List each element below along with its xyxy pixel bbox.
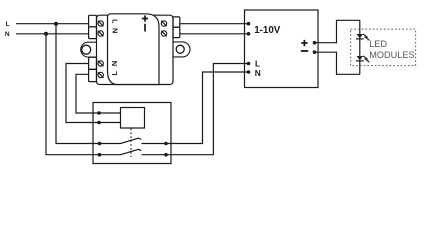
U2 terminal dot dim+: [247, 22, 251, 26]
screw terminal 2: [98, 31, 104, 37]
wire minus to LED chain: [315, 52, 360, 74]
driver U1 outline: [97, 15, 174, 84]
switch pole 2: [98, 149, 168, 156]
svg-text:N: N: [5, 31, 10, 38]
wire L horizontal: [16, 23, 89, 25]
screw terminal 5: [161, 21, 167, 27]
U2 terminal dot dim-: [247, 32, 251, 36]
junction dot L: [54, 22, 58, 26]
svg-text:MODULES: MODULES: [369, 50, 414, 60]
svg-text:1-10V: 1-10V: [254, 25, 281, 36]
U2 plus label: [301, 40, 307, 46]
mounting ear left hole: [82, 45, 91, 54]
wire LED chain vertical: [359, 20, 361, 74]
wire U1 plus to 1-10V: [180, 23, 249, 25]
wire U1 N2 to potentiometer: [66, 64, 121, 123]
U2 terminal dot L: [247, 62, 251, 66]
LED modules dashed box: [351, 29, 416, 65]
terminal clamp U1 left L: [89, 15, 97, 26]
svg-text:N: N: [110, 61, 119, 66]
wire N horizontal: [16, 33, 89, 35]
U2 minus label: [301, 50, 308, 52]
svg-text:LED: LED: [369, 39, 387, 49]
wire N drop to switch: [46, 34, 100, 155]
wire plus to LED chain: [315, 20, 360, 42]
pot terminal dot lower: [97, 121, 101, 125]
screw terminal 6: [161, 31, 167, 37]
svg-text:L: L: [110, 70, 119, 75]
wire U1 L2 to potentiometer: [76, 74, 121, 113]
mounting ear right hole: [176, 45, 184, 53]
svg-text:N: N: [255, 68, 261, 78]
terminal clamp U1 left N2: [89, 57, 97, 69]
screw terminal 3: [98, 61, 104, 67]
screw terminal 4: [98, 72, 104, 78]
svg-text:N: N: [110, 28, 119, 33]
U2 terminal dot N: [247, 70, 251, 74]
svg-text:L: L: [255, 58, 260, 68]
U1 minus label rotated: [144, 24, 146, 32]
terminal clamp U1 left L2: [89, 69, 97, 81]
U2 output dot minus: [313, 50, 317, 54]
wire switch pole1 to driver N: [166, 72, 249, 144]
wire switch pole2 to driver L: [166, 64, 249, 155]
junction dot N: [44, 32, 48, 36]
mechanical link dashed: [130, 129, 132, 158]
LED driver U2 box: [245, 10, 319, 88]
LED D1: [356, 34, 370, 41]
potentiometer RV1: [121, 108, 145, 129]
svg-text:L: L: [110, 19, 119, 24]
driver U1 body dome: [108, 14, 160, 85]
switch pole 1: [98, 138, 168, 145]
screw terminal 1: [98, 21, 104, 27]
pot terminal dot upper: [97, 111, 101, 115]
wire U1 minus to 1-10V: [180, 33, 249, 35]
dimmer S1 box: [93, 103, 171, 164]
LED D2: [356, 56, 370, 63]
U2 output dot plus: [313, 41, 317, 45]
wire L drop to switch: [56, 24, 100, 144]
terminal clamp U1 left N: [89, 27, 97, 39]
terminal clamp U1 right minus: [173, 27, 180, 37]
mounting ear right: [173, 42, 190, 57]
terminal clamp U1 right plus: [173, 17, 180, 27]
mounting ear left: [81, 42, 97, 57]
svg-text:L: L: [6, 21, 10, 28]
U1 plus label: [142, 15, 148, 21]
